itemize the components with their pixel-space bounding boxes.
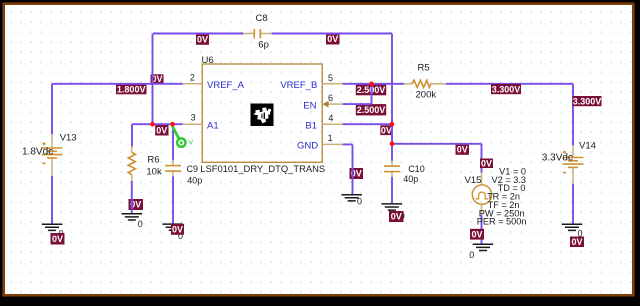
svg-text:40p: 40p <box>403 174 418 184</box>
ground (C10) <box>382 204 403 210</box>
svg-text:GND: GND <box>297 141 318 152</box>
resistor R5 <box>404 83 412 85</box>
svg-text:200k: 200k <box>416 90 437 101</box>
svg-text:VREF_B: VREF_B <box>280 80 317 91</box>
capacitor C10 <box>391 161 393 166</box>
net label 0V (pin1 wire) <box>350 168 364 179</box>
svg-text:2.500V: 2.500V <box>357 105 386 115</box>
ground (C9) <box>162 224 183 230</box>
ground (U6 pin1 / 0) <box>341 195 362 201</box>
wire C10 to ground <box>391 177 393 203</box>
svg-text:0V: 0V <box>457 145 468 155</box>
svg-text:C10: C10 <box>408 164 425 174</box>
svg-text:0V: 0V <box>391 212 402 222</box>
svg-text:LSF0101_DRY_DTQ_TRANS: LSF0101_DRY_DTQ_TRANS <box>200 163 325 174</box>
net label 0V (V14 ground) <box>570 237 584 248</box>
ground (V14) <box>562 224 583 230</box>
svg-text:A1: A1 <box>207 120 219 131</box>
wire C10 drop <box>391 144 393 161</box>
capacitor C8 <box>243 33 254 35</box>
svg-text:0V: 0V <box>52 234 63 244</box>
net label 0V (top wire left) <box>196 34 209 45</box>
net label 0V (C9 bottom) <box>171 224 184 235</box>
pin 3 stub <box>183 123 203 125</box>
svg-text:C8: C8 <box>256 13 268 24</box>
wire V13 drop <box>51 84 53 135</box>
svg-text:0: 0 <box>469 250 474 260</box>
svg-text:0V: 0V <box>481 158 492 168</box>
svg-text:0V: 0V <box>471 229 482 239</box>
net label 2.500V (EN net) <box>356 104 386 115</box>
svg-text:V13: V13 <box>60 132 77 143</box>
svg-text:0V: 0V <box>381 125 392 135</box>
voltage source V13 battery <box>51 134 53 148</box>
resistor R6 <box>131 147 133 153</box>
TI logo on U6 <box>251 104 274 127</box>
svg-text:6p: 6p <box>258 40 269 51</box>
svg-text:0: 0 <box>578 228 583 238</box>
wire C9 drop <box>172 124 174 160</box>
ground (V15) <box>473 244 494 250</box>
junction (A1 / C9 probe) <box>170 122 175 127</box>
wire V14 to ground <box>572 184 574 224</box>
net label 0V (R6 bottom) <box>129 199 144 210</box>
net label 0V (top wire right) <box>326 34 340 45</box>
voltage probe (green, at A1) <box>172 126 193 147</box>
net label 0V (V13 ground) <box>51 233 65 245</box>
svg-text:0V: 0V <box>172 225 183 235</box>
wire EN horizontal <box>343 103 372 105</box>
net label 0V (A1 pin wire) <box>155 125 168 136</box>
pin 2 stub <box>183 83 203 85</box>
svg-text:1.800V: 1.800V <box>117 85 146 95</box>
svg-text:EN: EN <box>303 100 316 111</box>
svg-text:6: 6 <box>328 93 333 103</box>
svg-text:0V: 0V <box>327 34 338 44</box>
svg-text:0V: 0V <box>156 125 167 135</box>
net label 3.300V (R5 right) <box>491 84 521 95</box>
svg-text:5: 5 <box>328 73 333 83</box>
svg-text:V15: V15 <box>465 175 482 186</box>
pulse source V15 <box>481 172 483 185</box>
wire R5 to V14 <box>446 83 573 85</box>
wire top (C8 right to B net) <box>272 33 392 35</box>
svg-text:3.300V: 3.300V <box>492 85 521 95</box>
ground (R6) <box>122 214 143 220</box>
svg-text:0V: 0V <box>571 237 582 247</box>
pin 1 stub <box>322 143 342 145</box>
svg-text:4: 4 <box>328 113 333 123</box>
ground (V13) <box>42 224 63 230</box>
wire R6 to ground <box>131 181 133 213</box>
wire right vertical (top to B1 net) <box>391 34 393 144</box>
svg-text:10k: 10k <box>146 166 162 177</box>
net label 1.800V (VREF_A net) <box>116 84 147 94</box>
svg-text:V: V <box>188 138 193 147</box>
pin 6 stub <box>328 103 343 105</box>
wire GND pin horizontal <box>343 143 353 145</box>
net label 0V (V15 ground) <box>470 229 484 240</box>
junction (A1 / left vertical) <box>150 122 155 127</box>
svg-text:2: 2 <box>190 73 195 83</box>
voltage source V14 battery <box>572 145 574 157</box>
wire V15 drop <box>481 144 483 173</box>
net label 0V (C10 ground) <box>389 211 404 222</box>
svg-text:B1: B1 <box>305 120 317 131</box>
svg-text:3: 3 <box>191 113 196 123</box>
pin 6 EN input arrow <box>322 101 328 108</box>
svg-text:0: 0 <box>357 197 362 207</box>
pin 5 stub <box>322 83 342 85</box>
svg-text:3.300V: 3.300V <box>573 97 602 107</box>
svg-text:0V: 0V <box>197 35 208 45</box>
svg-text:1.8Vdc: 1.8Vdc <box>22 146 53 157</box>
wire A1 horizontal <box>132 123 183 125</box>
wire V13 to ground <box>51 176 53 224</box>
svg-text:R6: R6 <box>147 155 159 166</box>
net label 0V (B1 net) <box>380 125 392 135</box>
wire B1 horizontal <box>343 123 392 125</box>
junction (VREF_B / EN) <box>369 82 374 87</box>
svg-text:V14: V14 <box>579 141 596 152</box>
wire GND pin vertical <box>352 144 354 194</box>
capacitor C9 <box>172 160 174 165</box>
wire R6 drop <box>131 124 133 146</box>
svg-text:1: 1 <box>328 133 333 143</box>
svg-text:40p: 40p <box>187 176 202 186</box>
wire VREF_B to R5 <box>343 83 404 85</box>
wire top (A net to C8 left) <box>153 33 243 35</box>
net label 0V (V15 vertical) <box>480 158 493 168</box>
net label 0V (A1 vertical wire) <box>151 74 164 84</box>
svg-text:C9: C9 <box>187 164 199 174</box>
wire EN vertical <box>371 84 373 104</box>
svg-text:U6: U6 <box>202 55 214 66</box>
svg-text:PER = 500n: PER = 500n <box>477 217 527 227</box>
junction (B1 / right vertical) <box>390 122 395 127</box>
junction (B net / C10 / V15) <box>390 142 395 147</box>
net label 2.500V (VREF_B net) <box>356 84 386 95</box>
wire B net to V15 <box>392 143 482 145</box>
wire C9 to ground <box>172 176 174 223</box>
wire V15 to ground <box>481 215 483 244</box>
wire VREF_A horizontal <box>52 83 183 85</box>
pin 4 stub <box>322 123 342 125</box>
net label 0V (wire to V15) <box>456 144 470 155</box>
svg-text:0: 0 <box>138 219 143 229</box>
svg-text:R5: R5 <box>418 62 430 73</box>
wire V14 drop <box>572 84 574 146</box>
svg-text:VREF_A: VREF_A <box>207 80 245 91</box>
IC U6 body <box>202 64 322 162</box>
svg-text:3.3Vdc: 3.3Vdc <box>542 152 573 163</box>
wire left vertical (top to A1 net) <box>152 34 154 125</box>
net label 3.300V (V14 wire) <box>573 96 602 107</box>
